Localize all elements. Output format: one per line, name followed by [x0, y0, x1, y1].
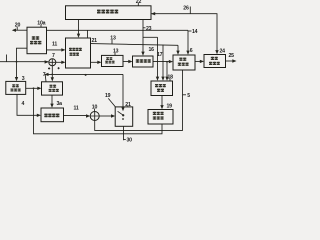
svg-text:22: 22 — [136, 0, 142, 5]
wire W5e junction down to AQ — [166, 62, 168, 80]
box mid: code embed decision — [66, 38, 91, 68]
tick label22 — [137, 3, 139, 6]
text blobs lowbox — [153, 112, 156, 113]
box low: inverse quantizer — [148, 110, 173, 125]
tick 20 — [16, 27, 18, 30]
tick 10 adder2 — [94, 109, 96, 112]
svg-text:3a: 3a — [57, 101, 63, 107]
svg-text:21: 21 — [125, 102, 131, 108]
wire W23 adder2 to switch — [99, 115, 113, 117]
svg-text:26: 26 — [183, 5, 189, 11]
wire W17 to switch — [45, 74, 123, 108]
wire W9 encoder to modulator — [195, 60, 203, 62]
wire W6 midbox to transform — [91, 61, 101, 63]
wire W13 lbox to midbox — [47, 49, 65, 51]
wire W18 boxA to boxB — [26, 87, 40, 89]
text blobs bottom box — [44, 114, 47, 116]
wire W11 input — [0, 61, 48, 63]
box top: coding controller — [66, 6, 152, 20]
svg-text:17: 17 — [157, 52, 163, 58]
text blobs ebox — [179, 58, 182, 59]
text blobs boxA — [12, 84, 15, 85]
svg-text:19: 19 — [105, 93, 111, 99]
text blobs tbox — [106, 57, 109, 58]
tick L1 to midbox corner — [87, 30, 89, 37]
box L: interleave modulator — [27, 27, 47, 54]
svg-text:19: 19 — [167, 103, 173, 109]
wire W22 predictor to adder2 — [64, 114, 89, 116]
wire W8 quantizer to encoder — [153, 61, 172, 63]
wire W16 adder1 to boxB — [51, 66, 53, 80]
text blobs midbox — [69, 48, 72, 49]
svg-text:10: 10 — [92, 104, 98, 110]
adder 2 — [90, 112, 99, 121]
wire W27 AQ to lowbox — [161, 96, 163, 108]
text blobs qbox — [136, 59, 139, 60]
slant at boxB top — [44, 75, 47, 82]
wire W14 lbox left down to boxA — [17, 48, 28, 79]
box switch — [115, 107, 133, 126]
svg-text:24: 24 — [220, 49, 226, 55]
box E: orth encoder — [173, 55, 195, 70]
svg-text:20: 20 — [15, 23, 21, 29]
wire W21 boxA down to predictor — [17, 94, 39, 115]
svg-text:5: 5 — [187, 93, 190, 99]
svg-text:21: 21 — [92, 38, 98, 44]
tick 5 — [183, 94, 187, 96]
svg-text:11: 11 — [52, 41, 57, 47]
tick label26 — [189, 7, 191, 14]
wire L2 midbox to encoder — [91, 44, 179, 54]
svg-text:10a: 10a — [37, 20, 45, 26]
wire W20 boxB down to predictor — [51, 95, 53, 106]
svg-text:30: 30 — [127, 137, 133, 143]
box A: buffer memory — [6, 81, 26, 94]
tick label23 — [143, 27, 146, 29]
wire W5b down to AQ — [157, 37, 159, 79]
adder 1 — [49, 59, 56, 66]
svg-text:16: 16 — [149, 47, 155, 53]
svg-text:7: 7 — [43, 72, 46, 78]
svg-text:6: 6 — [190, 48, 193, 54]
wire W12 adder1 to midbox — [56, 61, 64, 63]
switch lever — [118, 111, 124, 115]
wire W4 topbox to quantizer — [142, 20, 144, 55]
tick 30 — [124, 139, 126, 141]
wire W25 switch output 30 — [123, 126, 125, 140]
svg-text:3: 3 — [22, 76, 25, 82]
tick label14 — [189, 30, 192, 32]
box AQ: adaptive quantizer — [151, 81, 173, 96]
box B: local decoder — [42, 82, 63, 95]
adder1 plus marks — [48, 67, 60, 69]
svg-text:4: 4 — [22, 101, 25, 107]
text blobs mbox2 — [211, 57, 214, 58]
svg-text:13: 13 — [113, 48, 119, 54]
text blobs AQ box — [155, 84, 158, 85]
box T: orth transform — [102, 55, 124, 66]
svg-text:23: 23 — [146, 26, 152, 32]
leader 19 switch — [108, 98, 115, 107]
wire W1 feedback to modulator — [151, 14, 217, 54]
tick 21b — [127, 105, 129, 108]
tick 18 — [169, 79, 171, 81]
arrowheads — [151, 12, 155, 15]
svg-text:11: 11 — [74, 106, 79, 112]
text blobs top box — [97, 10, 101, 12]
box bottom: predictor — [41, 108, 64, 122]
tick label13b — [114, 53, 116, 56]
svg-text:18: 18 — [168, 74, 174, 80]
svg-text:7: 7 — [52, 53, 55, 59]
switch input arrowhead — [121, 107, 124, 111]
box M2: orth modulator — [204, 55, 226, 68]
wire W26 junction around to lowbox — [34, 88, 163, 134]
svg-text:25: 25 — [229, 53, 235, 59]
wire W24 adder2 around to encoder bottom — [95, 70, 183, 130]
svg-text:14: 14 — [192, 29, 198, 35]
wire W5d down to AQ — [162, 45, 164, 80]
tick 10a — [40, 25, 42, 28]
wire W7 transform to quantizer — [123, 61, 131, 63]
wire W15 left out arrow — [13, 29, 27, 31]
text blobs boxB — [50, 85, 53, 86]
wire W10 output 25 — [226, 60, 236, 62]
junction dots — [85, 74, 87, 76]
wire W3 topbox to midbox — [78, 20, 80, 37]
text blobs lbox — [32, 36, 35, 37]
tick label13a — [111, 40, 113, 44]
adder 1 cross — [49, 59, 55, 65]
switch contacts — [122, 114, 124, 116]
input tick — [6, 55, 8, 62]
adder 2 cross — [91, 112, 99, 120]
wire L1 from LBox to encoder — [47, 30, 189, 51]
wire W5a jog — [143, 36, 158, 38]
svg-text:13: 13 — [110, 36, 116, 42]
box Q: quantizer — [133, 56, 154, 67]
